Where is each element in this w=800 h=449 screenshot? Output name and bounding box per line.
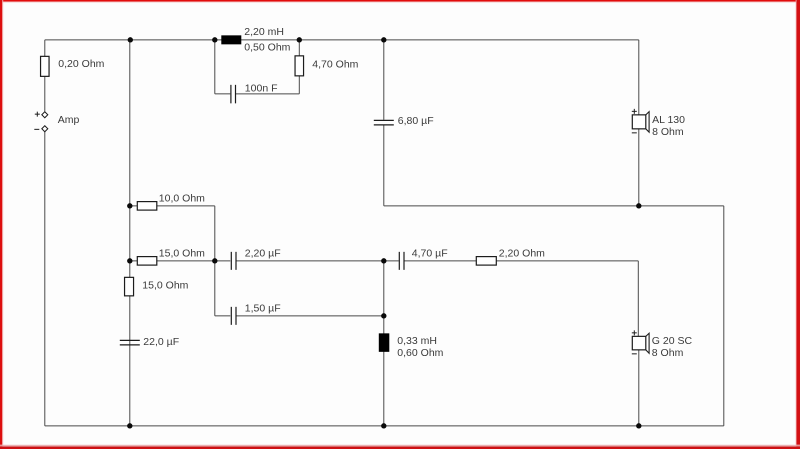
wire row5 left: [215, 315, 231, 317]
wire 6.8uF top lead: [383, 40, 385, 120]
node row5 E: [381, 313, 386, 318]
svg-text:0,50 Ohm: 0,50 Ohm: [244, 41, 290, 53]
wire rail B: [129, 40, 131, 426]
svg-text:15,0 Ohm: 15,0 Ohm: [159, 247, 205, 259]
wire G20 bottom lead: [638, 350, 640, 426]
wire G20 top lead: [637, 261, 639, 337]
capacitor C 1,50 uF: [231, 302, 280, 325]
wire row4 right: [404, 260, 639, 262]
resistor R 10,0 Ohm: [137, 192, 205, 210]
wire RC loop right: [298, 76, 300, 94]
capacitor C 2,20 uF: [231, 247, 280, 270]
inductor L 0,33 mH: [379, 333, 444, 359]
wire 100nF row left: [215, 93, 231, 95]
wire 6.8uF bottom lead: [383, 125, 385, 206]
capacitor C 22,0 uF: [120, 336, 179, 348]
wire bottom bus: [45, 425, 724, 427]
svg-text:15,0 Ohm: 15,0 Ohm: [142, 279, 188, 291]
resistor R 4,70 Ohm: [295, 56, 359, 76]
svg-text:G 20 SC: G 20 SC: [652, 335, 693, 347]
node row4 E: [381, 258, 386, 263]
node row4 C: [212, 258, 217, 263]
wire AL130 bottom lead: [638, 129, 640, 206]
svg-text:8 Ohm: 8 Ohm: [652, 347, 684, 359]
wire 100nF row right: [236, 93, 300, 95]
wire top bus: [45, 39, 639, 41]
speaker AL 130: [632, 109, 685, 138]
red frame left: [0, 0, 2, 449]
svg-text:0,20 Ohm: 0,20 Ohm: [58, 58, 104, 70]
svg-text:Amp: Amp: [58, 114, 80, 126]
resistor R 15,0 Ohm horizontal: [137, 247, 205, 265]
inductor L 2,20 mH: [221, 26, 290, 53]
wire AL130 top lead: [638, 40, 640, 115]
speaker G 20 SC: [632, 330, 693, 359]
node top bus E: [381, 37, 386, 42]
node top bus D: [297, 37, 302, 42]
wire left rail upper: [44, 40, 46, 112]
svg-text:0,33 mH: 0,33 mH: [397, 335, 437, 347]
wire row4 left: [130, 260, 231, 262]
svg-text:2,20 µF: 2,20 µF: [245, 247, 281, 259]
wire E lower rail: [383, 261, 385, 426]
svg-text:22,0 µF: 22,0 µF: [143, 336, 179, 348]
wire right rail: [723, 206, 725, 426]
capacitor C 100n F: [231, 82, 278, 103]
wire row5 right: [236, 315, 384, 317]
capacitor C 4,70 uF: [399, 247, 447, 270]
wire row4 mid: [236, 260, 399, 262]
wire RC loop left: [214, 40, 216, 94]
node mid bus AL130: [636, 203, 641, 208]
svg-text:6,80 µF: 6,80 µF: [398, 115, 434, 127]
node bottom bus F: [636, 423, 641, 428]
wire 10 Ohm row: [130, 205, 215, 207]
amp plus terminal: [35, 112, 48, 118]
svg-text:0,60 Ohm: 0,60 Ohm: [397, 347, 443, 359]
wire ladder mid rail: [214, 206, 216, 316]
red frame right: [797, 0, 800, 449]
svg-text:10,0 Ohm: 10,0 Ohm: [159, 192, 205, 204]
svg-text:1,50 µF: 1,50 µF: [245, 302, 281, 314]
node row4 B: [127, 258, 132, 263]
svg-text:8 Ohm: 8 Ohm: [652, 126, 684, 138]
resistor R 2,20 Ohm: [476, 247, 545, 265]
red frame top: [0, 0, 800, 2]
wire mid bus: [384, 205, 724, 207]
svg-text:4,70 Ohm: 4,70 Ohm: [312, 58, 358, 70]
svg-text:4,70 µF: 4,70 µF: [412, 247, 448, 259]
wire left rail lower: [44, 132, 46, 426]
svg-text:2,20 mH: 2,20 mH: [244, 26, 284, 38]
svg-text:100n F: 100n F: [245, 82, 278, 94]
node bottom bus B: [127, 423, 132, 428]
capacitor C 6,80 uF: [374, 115, 434, 127]
node bottom bus E: [381, 423, 386, 428]
node top bus C: [212, 37, 217, 42]
node row3 B: [127, 203, 132, 208]
wire R4.7 top lead: [298, 40, 300, 56]
svg-text:2,20 Ohm: 2,20 Ohm: [499, 247, 545, 259]
amp minus terminal: [34, 126, 48, 132]
resistor R 0,20 Ohm: [41, 56, 105, 76]
svg-text:AL 130: AL 130: [652, 114, 685, 126]
red frame bottom: [0, 445, 800, 446]
resistor R 15,0 Ohm vertical: [125, 277, 189, 296]
node top bus B: [128, 37, 133, 42]
